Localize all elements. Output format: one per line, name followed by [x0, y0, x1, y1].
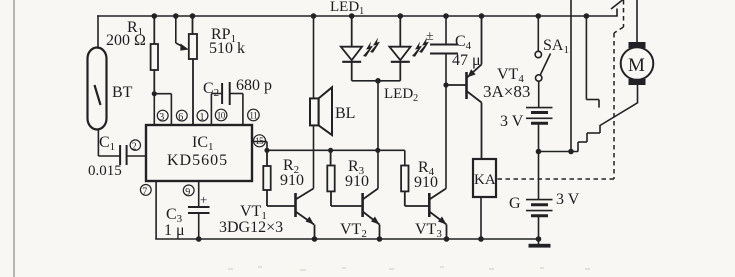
wire RP1 wiper — [176, 16, 184, 47]
LED1 — [341, 16, 362, 81]
svg-text:910: 910 — [345, 173, 369, 190]
wire top supply bus — [98, 15, 617, 17]
node bus R2 — [264, 148, 269, 153]
svg-text:9: 9 — [185, 187, 190, 198]
wire pin7 to ground bus — [155, 181, 157, 239]
battery BT (sensor capsule) — [88, 48, 107, 130]
node R1 top — [152, 13, 158, 19]
svg-text:6: 6 — [178, 112, 183, 123]
resistor R4 — [401, 166, 429, 207]
capacitor C2 — [222, 82, 230, 105]
transistor VT3 — [429, 189, 446, 240]
resistor R2 — [263, 150, 295, 206]
LED1 light arrows — [363, 38, 380, 57]
svg-text:200 Ω: 200 Ω — [106, 32, 146, 49]
transistor VT2 — [363, 189, 380, 240]
svg-text:910: 910 — [414, 174, 438, 191]
wire BT bottom to C1 — [98, 130, 120, 157]
svg-text:10: 10 — [217, 110, 226, 120]
svg-text:3DG12×3: 3DG12×3 — [219, 219, 283, 236]
svg-text:G: G — [509, 195, 521, 212]
transistor VT4 — [446, 16, 482, 159]
wire pin15 to output bus — [252, 142, 405, 166]
node VT1 emitter — [312, 236, 318, 242]
pin 2 — [130, 140, 140, 150]
capacitor C3 — [188, 207, 210, 213]
motor M — [621, 47, 654, 80]
wire LED join to VT2 collector — [352, 81, 401, 189]
svg-text:BT: BT — [112, 84, 133, 101]
svg-text:±: ± — [426, 29, 434, 44]
op-amp IC1 KD5605 box — [146, 125, 252, 181]
svg-text:KD5605: KD5605 — [167, 152, 228, 169]
svg-text:LED1: LED1 — [330, 0, 364, 17]
capacitor C1 — [120, 145, 127, 165]
node VT2 emitter — [377, 236, 383, 242]
wire pin9 to C3 — [198, 181, 200, 207]
svg-text:+: + — [200, 192, 207, 207]
page border line (scan edge) — [13, 0, 15, 277]
svg-text:2: 2 — [132, 142, 137, 153]
transistor VT1 — [296, 189, 315, 240]
svg-text:3A×83: 3A×83 — [483, 82, 530, 101]
relay coil KA — [473, 159, 496, 197]
relay contact blade (top, cut off) — [611, 0, 625, 16]
capacitor C4 — [430, 45, 458, 54]
node VT4 base junction — [443, 82, 448, 87]
wire common vertical to top edge — [570, 0, 572, 152]
potentiometer RP1 — [189, 16, 197, 125]
node KA ground — [478, 236, 484, 242]
svg-text:0.015: 0.015 — [88, 163, 122, 179]
pin 15 — [254, 135, 266, 147]
node RP1 wiper top — [173, 13, 179, 19]
LED2 light arrows — [412, 38, 429, 57]
dashed relay linkage — [496, 0, 624, 179]
svg-text:M: M — [628, 55, 645, 76]
faint caption speckles — [228, 266, 590, 271]
wire R1 junction to pins 3 and 6 — [154, 94, 171, 125]
svg-text:LED2: LED2 — [384, 86, 418, 104]
node bus LED/VT2 — [375, 148, 380, 153]
pin 10 — [215, 109, 227, 121]
battery G 3V — [526, 200, 553, 216]
wire BT top lead — [97, 16, 99, 48]
svg-text:680 p: 680 p — [236, 77, 272, 94]
pin 11 — [248, 109, 260, 121]
pin 3 — [157, 110, 168, 121]
resistor R1 — [151, 16, 158, 94]
switch SA1 — [535, 16, 550, 108]
svg-text:910: 910 — [280, 172, 304, 189]
svg-text:1 μ: 1 μ — [164, 222, 185, 239]
node battery junction — [536, 149, 542, 155]
resistor R3 — [327, 150, 362, 206]
wire battery junction to relay contact — [539, 125, 601, 152]
wire upper fixed contact from bus — [586, 16, 599, 108]
wire bottom ground bus — [156, 238, 540, 240]
svg-text:3 V: 3 V — [556, 191, 580, 208]
pin 6 — [176, 110, 187, 121]
node common line — [568, 149, 574, 155]
wire C1 to pin 2 — [127, 155, 146, 157]
node LED join — [375, 78, 381, 84]
pin 7 — [140, 185, 151, 196]
battery 3V (top) — [526, 108, 553, 124]
node RP1 top — [190, 13, 196, 19]
svg-text:47 μ: 47 μ — [452, 52, 481, 69]
svg-text:BL: BL — [335, 105, 355, 122]
relay contact blade (lower) — [600, 85, 638, 126]
svg-text:510 k: 510 k — [209, 40, 245, 57]
node BL top — [311, 13, 317, 19]
svg-text:7: 7 — [142, 187, 147, 198]
pin 9 — [183, 185, 194, 196]
node C3 ground — [196, 236, 202, 242]
node bus R3 — [328, 148, 333, 153]
LED2 — [389, 16, 410, 81]
node R1 junction — [152, 91, 157, 96]
node VT3 emitter — [444, 236, 450, 242]
svg-text:1: 1 — [200, 112, 205, 123]
wire VT3 collector to C4/VT4 base — [445, 54, 447, 189]
pin 1 — [197, 110, 208, 121]
svg-text:KA: KA — [474, 172, 496, 188]
ground — [536, 236, 542, 242]
svg-text:3 V: 3 V — [500, 113, 524, 130]
loudspeaker BL — [313, 16, 315, 189]
svg-text:3: 3 — [159, 112, 164, 123]
svg-text:11: 11 — [249, 110, 257, 120]
